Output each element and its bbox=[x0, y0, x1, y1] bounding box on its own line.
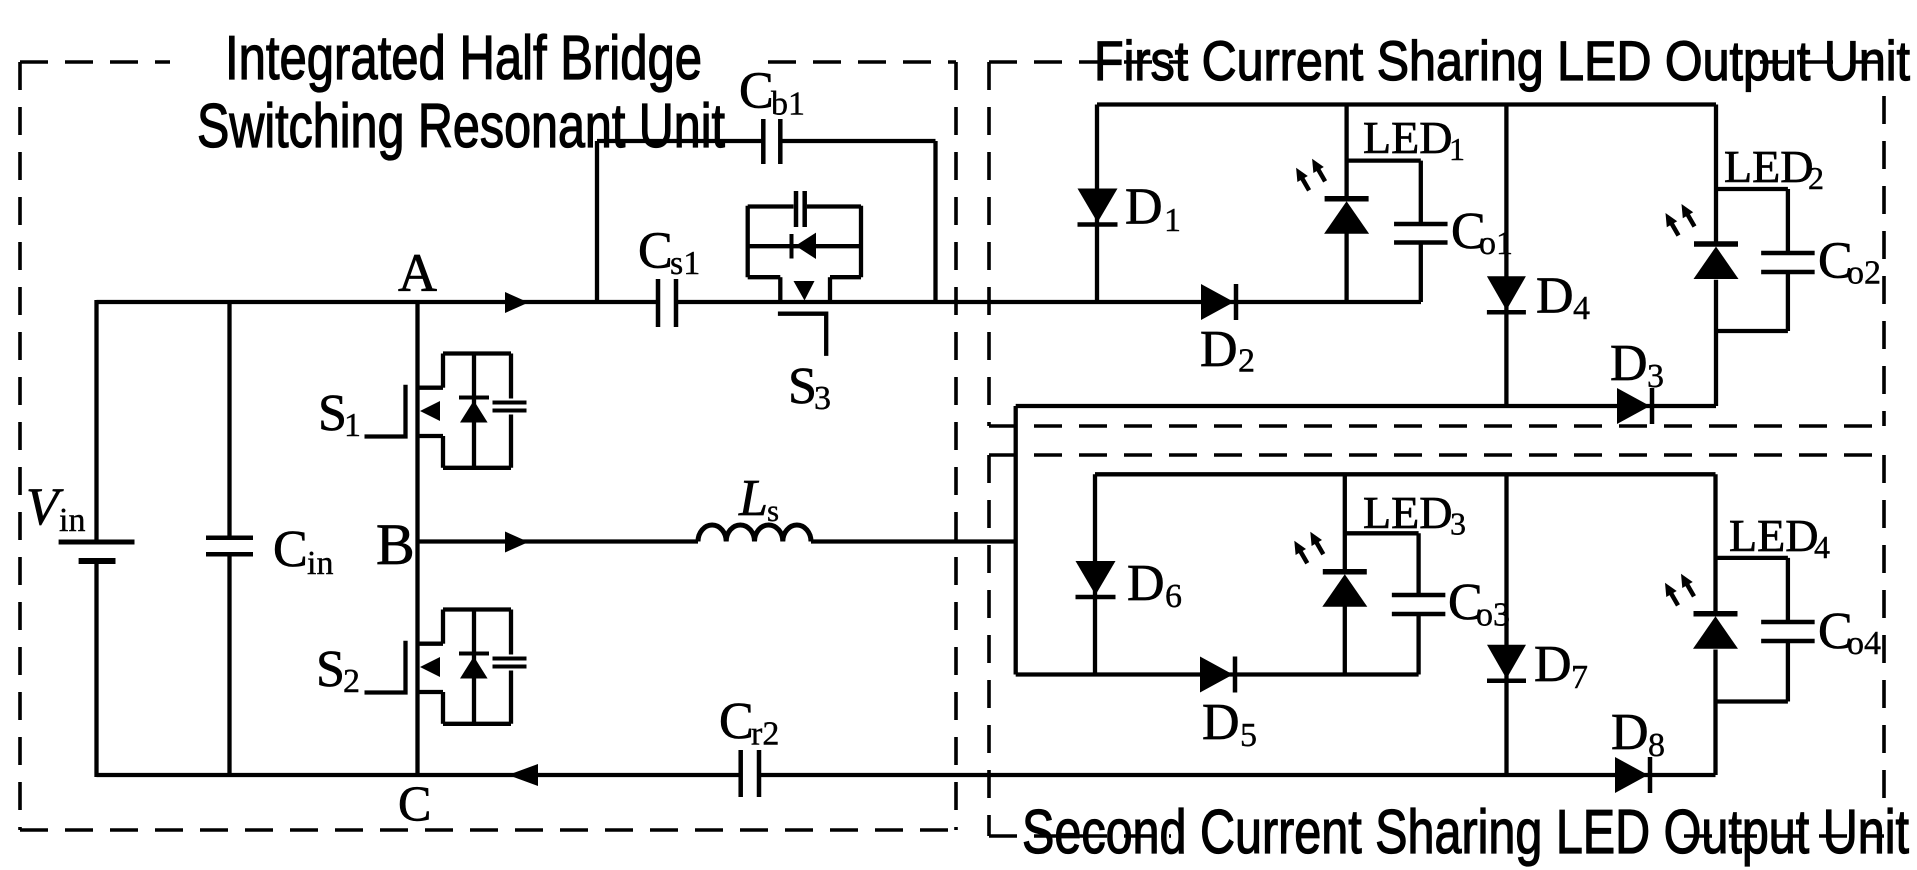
label S3 bbox=[788, 358, 831, 417]
S1 cell box bbox=[418, 354, 512, 468]
wire: second unit D5 rail y=674.5 bbox=[1016, 672, 1419, 676]
svg-text:C: C bbox=[398, 775, 431, 831]
svg-text:Integrated Half Bridge: Integrated Half Bridge bbox=[225, 24, 702, 93]
wire: LED1/Co1 junction top bar bbox=[1347, 158, 1421, 162]
S2 channel arrow bbox=[420, 657, 440, 677]
label D8 bbox=[1611, 704, 1665, 764]
svg-text:s1: s1 bbox=[670, 245, 700, 282]
svg-text:o2: o2 bbox=[1847, 255, 1881, 292]
wire: first unit top rail y=104.5 bbox=[1097, 102, 1716, 106]
MOSFET switch S1 (with body diode and parallel capacitor) bbox=[365, 354, 527, 468]
wire: LED3 branch vertical x=1344.8 bbox=[1343, 474, 1347, 674]
svg-text:C: C bbox=[719, 693, 754, 750]
svg-text:r2: r2 bbox=[751, 716, 779, 753]
label Cs1 bbox=[638, 223, 700, 283]
wire: LED3/Co3 junction top bar bbox=[1345, 531, 1419, 535]
wire: Co3 branch vertical x=1418.6 bbox=[1416, 533, 1420, 674]
svg-text:1: 1 bbox=[1449, 131, 1465, 167]
wire: Cin branch vertical x=229.5 bbox=[227, 300, 231, 777]
wire: D4 branch vertical x=1506.4 bbox=[1504, 105, 1508, 407]
label LED4 bbox=[1729, 510, 1830, 565]
capacitor Co4 bbox=[1761, 620, 1815, 625]
label Cb1 bbox=[739, 63, 805, 123]
wire: input source branch vertical x=96.5 bbox=[94, 300, 98, 777]
wire: LED4 branch vertical x=1715.5 bbox=[1713, 474, 1717, 775]
S2 cell box bbox=[418, 610, 512, 724]
wire: inter-unit vertical x=1015.7 bbox=[1014, 406, 1018, 675]
label D6 bbox=[1127, 555, 1182, 615]
capacitor Cs1 bbox=[658, 279, 676, 327]
label D5 bbox=[1202, 694, 1257, 754]
capacitor Co1 bbox=[1394, 222, 1448, 227]
diode D1 bbox=[1078, 189, 1118, 223]
wire: node B horizontal rail y=541.5 bbox=[418, 539, 1016, 543]
dashed box: First Current Sharing LED Output Unit bbox=[989, 62, 1884, 426]
svg-text:8: 8 bbox=[1648, 727, 1665, 764]
wire: D7 branch vertical x=1506.5 bbox=[1504, 474, 1508, 775]
svg-text:D: D bbox=[1536, 268, 1574, 325]
svg-text:B: B bbox=[376, 512, 415, 577]
svg-text:2: 2 bbox=[1808, 160, 1824, 196]
label D3 bbox=[1610, 335, 1664, 395]
label S2 bbox=[316, 641, 360, 700]
capacitor Co3 bbox=[1392, 593, 1446, 598]
wire: second unit top rail y=474.3 bbox=[1095, 472, 1716, 476]
S2 parallel capacitor bbox=[493, 610, 527, 724]
svg-text:D: D bbox=[1534, 636, 1572, 693]
label D1 bbox=[1125, 179, 1181, 240]
label S1 bbox=[318, 385, 361, 444]
svg-text:C: C bbox=[739, 63, 774, 120]
diode D8 bbox=[1615, 757, 1648, 793]
label D4 bbox=[1536, 268, 1590, 328]
label Co3 bbox=[1448, 574, 1510, 634]
svg-text:3: 3 bbox=[1647, 358, 1664, 395]
svg-text:A: A bbox=[398, 243, 437, 303]
wire: LED1 branch vertical x=1346.6 bbox=[1344, 105, 1348, 303]
S3 body diode bbox=[792, 233, 817, 259]
svg-text:D: D bbox=[1127, 555, 1165, 612]
S3 parallel capacitor bbox=[796, 191, 805, 227]
svg-text:in: in bbox=[59, 502, 85, 539]
diode D4 bbox=[1487, 276, 1526, 310]
svg-text:D: D bbox=[1610, 335, 1648, 392]
svg-text:LED: LED bbox=[1363, 112, 1452, 163]
label LED1 bbox=[1363, 112, 1465, 167]
svg-text:o4: o4 bbox=[1847, 625, 1881, 662]
wire: Co2 branch vertical x=1787.9 bbox=[1786, 189, 1790, 331]
S3 gate bbox=[778, 314, 826, 356]
wire: LED4/Co4 sub-box top and bottom bars bbox=[1716, 558, 1788, 702]
LED4 light arrows bbox=[1671, 592, 1679, 605]
wire: Co1 branch vertical x=1420.8 bbox=[1419, 161, 1423, 302]
svg-text:5: 5 bbox=[1240, 717, 1257, 754]
svg-text:s: s bbox=[767, 493, 779, 528]
S3 cell box bbox=[748, 206, 861, 302]
svg-text:3: 3 bbox=[1450, 506, 1466, 542]
svg-text:S: S bbox=[788, 358, 817, 415]
diode D3 bbox=[1617, 388, 1650, 424]
wire: half-bridge leg vertical x=417.5 (node A to node C) bbox=[415, 302, 419, 775]
capacitor Co2 bbox=[1761, 251, 1815, 256]
S1 body diode bbox=[459, 398, 489, 423]
svg-text:D: D bbox=[1125, 179, 1163, 236]
wire: first unit bottom rail (D3 wire) y=406 bbox=[1016, 404, 1716, 408]
diode D7 bbox=[1487, 645, 1526, 679]
battery Vin (two plates) bbox=[59, 542, 135, 561]
LED2 light arrows bbox=[1671, 223, 1679, 236]
LED3 light arrows bbox=[1300, 550, 1308, 563]
current arrow on node B rail bbox=[505, 532, 529, 553]
capacitor Cin bbox=[206, 536, 253, 541]
LED3 bbox=[1323, 569, 1367, 575]
svg-text:Second Current Sharing LED Out: Second Current Sharing LED Output Unit bbox=[1022, 798, 1909, 867]
wire: LED2/Co2 sub-box top and bottom bars bbox=[1716, 189, 1788, 331]
label Co1 bbox=[1451, 203, 1513, 262]
diode D2 bbox=[1201, 284, 1234, 320]
svg-text:Switching Resonant Unit: Switching Resonant Unit bbox=[197, 92, 725, 161]
svg-text:LED: LED bbox=[1729, 510, 1818, 561]
MOSFET switch S3 (horizontal, with body diode and parallel capacitor) bbox=[748, 191, 861, 356]
wire: Co4 branch vertical x=1787.9 bbox=[1786, 558, 1790, 702]
wire: D1 branch vertical x=1097 bbox=[1095, 105, 1099, 303]
wire: node C horizontal rail y=775 bbox=[97, 773, 1716, 777]
label Co4 bbox=[1818, 603, 1881, 662]
LED1 light arrows bbox=[1302, 177, 1310, 190]
svg-text:4: 4 bbox=[1573, 290, 1590, 327]
label D2 bbox=[1200, 321, 1255, 380]
svg-text:1: 1 bbox=[1164, 202, 1181, 239]
diode D6 bbox=[1076, 561, 1116, 595]
label LED3 bbox=[1363, 487, 1466, 542]
current arrow on node C rail (pointing left) bbox=[508, 764, 538, 786]
wire: node A horizontal rail y=302 bbox=[97, 300, 1422, 304]
LED1 bbox=[1325, 196, 1369, 202]
MOSFET switch S2 (with body diode and parallel capacitor) bbox=[365, 610, 527, 724]
svg-text:D: D bbox=[1202, 694, 1240, 751]
svg-text:7: 7 bbox=[1571, 659, 1588, 696]
S1 gate bbox=[365, 385, 406, 437]
wire: LED2 branch vertical x=1716 bbox=[1714, 105, 1718, 407]
svg-text:First Current Sharing LED Outp: First Current Sharing LED Output Unit bbox=[1094, 29, 1910, 92]
label D7 bbox=[1534, 636, 1588, 696]
label LED2 bbox=[1724, 141, 1824, 196]
inductor Ls bbox=[698, 525, 811, 542]
wire: D6 branch vertical x=1095 bbox=[1093, 474, 1097, 674]
S3 channel arrow bbox=[794, 281, 815, 301]
svg-text:1: 1 bbox=[344, 407, 361, 444]
svg-text:2: 2 bbox=[343, 663, 360, 700]
svg-text:D: D bbox=[1611, 704, 1649, 761]
S2 body diode bbox=[459, 654, 489, 679]
svg-text:3: 3 bbox=[814, 380, 831, 417]
LED2 bbox=[1694, 241, 1738, 247]
S1 parallel capacitor bbox=[493, 354, 527, 468]
LED4 bbox=[1694, 611, 1738, 617]
svg-text:6: 6 bbox=[1165, 578, 1182, 615]
svg-text:LED: LED bbox=[1724, 141, 1813, 192]
S1 channel arrow bbox=[420, 401, 440, 421]
svg-text:S: S bbox=[316, 641, 345, 698]
svg-text:C: C bbox=[273, 521, 308, 578]
svg-text:C: C bbox=[638, 223, 673, 280]
current arrow on node A rail bbox=[505, 292, 529, 313]
capacitor Cr2 bbox=[741, 750, 759, 797]
svg-text:2: 2 bbox=[1238, 343, 1255, 380]
svg-text:b1: b1 bbox=[771, 86, 805, 123]
svg-text:4: 4 bbox=[1814, 529, 1830, 565]
svg-text:L: L bbox=[738, 470, 768, 527]
svg-text:LED: LED bbox=[1363, 487, 1452, 538]
diode D5 bbox=[1200, 657, 1233, 693]
label Ls bbox=[738, 470, 779, 528]
svg-text:D: D bbox=[1200, 321, 1238, 378]
svg-text:S: S bbox=[318, 385, 347, 442]
capacitor Cb1 bbox=[763, 119, 780, 164]
label Cin bbox=[273, 521, 333, 582]
label Vin bbox=[26, 478, 85, 539]
svg-text:in: in bbox=[307, 545, 333, 582]
label Cr2 bbox=[719, 693, 779, 753]
dashed box: Second Current Sharing LED Output Unit bbox=[989, 455, 1884, 836]
S2 gate bbox=[365, 641, 406, 693]
label Co2 bbox=[1818, 233, 1881, 292]
dashed box: Integrated Half Bridge Switching Resonant Unit bbox=[20, 62, 956, 830]
wire: Cb1 bypass loop bbox=[597, 141, 936, 302]
